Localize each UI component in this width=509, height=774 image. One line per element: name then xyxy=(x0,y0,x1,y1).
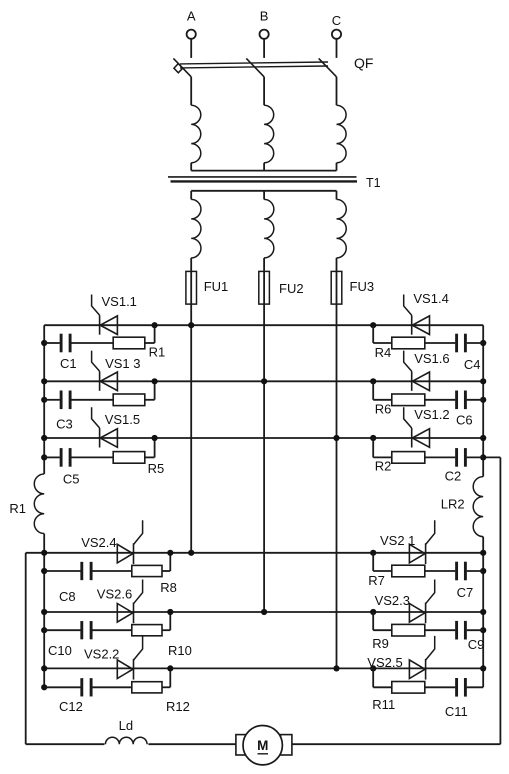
svg-text:R9: R9 xyxy=(372,636,389,651)
svg-text:VS2.4: VS2.4 xyxy=(81,535,116,550)
svg-text:QF: QF xyxy=(354,55,373,71)
svg-text:R6: R6 xyxy=(375,402,392,417)
svg-text:R2: R2 xyxy=(375,459,392,474)
svg-text:VS1 3: VS1 3 xyxy=(105,356,140,371)
svg-text:C11: C11 xyxy=(445,704,468,719)
svg-text:C9: C9 xyxy=(468,637,485,652)
svg-text:C5: C5 xyxy=(63,472,80,487)
svg-text:C6: C6 xyxy=(456,413,473,428)
svg-text:T1: T1 xyxy=(366,176,381,190)
svg-text:C3: C3 xyxy=(56,417,73,432)
svg-text:FU3: FU3 xyxy=(350,279,375,294)
svg-text:R1: R1 xyxy=(149,345,166,360)
svg-text:R12: R12 xyxy=(166,699,190,714)
svg-text:B: B xyxy=(260,9,269,24)
svg-text:R11: R11 xyxy=(372,697,395,712)
svg-text:C4: C4 xyxy=(464,357,481,372)
svg-text:VS1.6: VS1.6 xyxy=(414,351,449,366)
svg-text:C7: C7 xyxy=(457,585,474,600)
svg-text:FU2: FU2 xyxy=(279,281,304,296)
svg-text:VS2 1: VS2 1 xyxy=(380,533,415,548)
svg-text:LR2: LR2 xyxy=(441,497,465,512)
svg-text:R10: R10 xyxy=(168,643,192,658)
svg-text:VS2.5: VS2.5 xyxy=(367,655,402,670)
svg-text:VS1.2: VS1.2 xyxy=(414,407,449,422)
svg-text:C8: C8 xyxy=(59,589,76,604)
svg-text:R5: R5 xyxy=(148,461,165,476)
svg-text:VS1.5: VS1.5 xyxy=(105,412,140,427)
svg-text:VS1.4: VS1.4 xyxy=(413,291,448,306)
svg-text:C10: C10 xyxy=(48,643,72,658)
svg-text:VS1.1: VS1.1 xyxy=(102,294,137,309)
svg-text:C: C xyxy=(332,13,341,28)
svg-text:VS2.6: VS2.6 xyxy=(97,587,132,602)
svg-text:C1: C1 xyxy=(60,356,77,371)
svg-text:C2: C2 xyxy=(445,469,462,484)
svg-text:R1: R1 xyxy=(9,501,26,516)
svg-text:M: M xyxy=(257,738,268,753)
svg-text:R7: R7 xyxy=(368,573,385,588)
svg-text:R4: R4 xyxy=(375,345,392,360)
svg-text:VS2.3: VS2.3 xyxy=(375,593,410,608)
svg-text:VS2.2: VS2.2 xyxy=(84,647,119,662)
svg-text:Ld: Ld xyxy=(119,718,133,733)
svg-text:C12: C12 xyxy=(59,699,83,714)
svg-text:FU1: FU1 xyxy=(204,279,229,294)
svg-text:A: A xyxy=(187,9,196,24)
svg-text:R8: R8 xyxy=(160,580,177,595)
